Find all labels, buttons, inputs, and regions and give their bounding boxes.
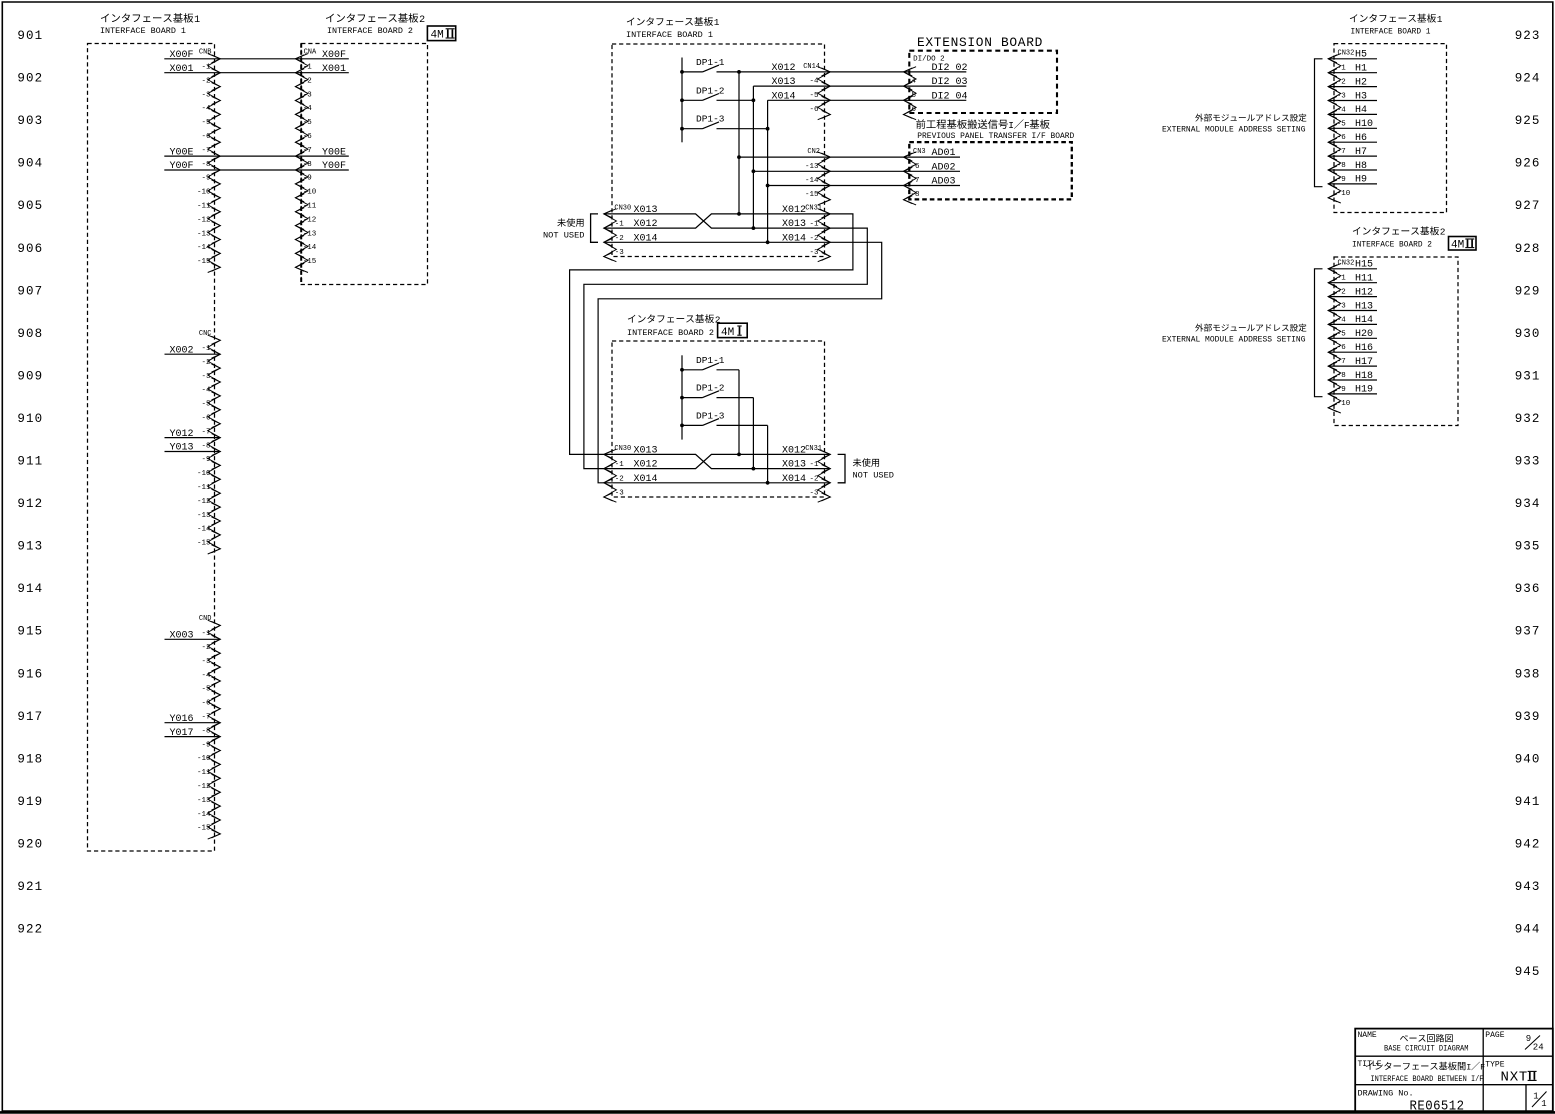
svg-text:-4: -4 [809, 78, 819, 86]
svg-text:1: 1 [1437, 14, 1443, 25]
4MII type box (right board 2) [1449, 237, 1477, 251]
wire AD01 net (to CN2 / CN3) [739, 156, 904, 158]
net vertical DP1-2 to X013 row (board 2) [752, 398, 754, 469]
wire X013 (to CN14-4) [753, 85, 903, 87]
svg-text:NOT USED: NOT USED [543, 230, 585, 240]
svg-text:-4: -4 [1337, 106, 1347, 114]
svg-text:H1: H1 [1355, 64, 1367, 75]
svg-text:Y00E: Y00E [322, 147, 346, 158]
address-setting bracket (board 1 right) [1315, 59, 1323, 187]
svg-text:H16: H16 [1355, 343, 1373, 354]
wire stub DI2 03 [904, 85, 967, 87]
svg-text:CN14: CN14 [803, 63, 820, 71]
svg-text:INTERFACE BOARD 1: INTERFACE BOARD 1 [1351, 27, 1431, 37]
svg-text:-8: -8 [201, 727, 210, 735]
interface board 2 (right) box [1334, 257, 1458, 426]
svg-text:-15: -15 [197, 258, 211, 266]
svg-text:-10: -10 [1337, 400, 1351, 408]
svg-text:-7: -7 [1337, 148, 1346, 156]
svg-text:901: 901 [17, 29, 43, 43]
not used label (board 2) [853, 458, 895, 480]
svg-text:H13: H13 [1355, 301, 1373, 312]
svg-text:H3: H3 [1355, 91, 1367, 102]
svg-text:944: 944 [1515, 923, 1541, 937]
title block NAME cell [1358, 1031, 1469, 1054]
svg-text:NAME: NAME [1358, 1031, 1377, 1040]
svg-text:912: 912 [17, 497, 43, 511]
svg-text:INTERFACE BOARD 1: INTERFACE BOARD 1 [626, 30, 713, 40]
svg-text:CN31: CN31 [805, 445, 822, 453]
svg-text:-13: -13 [805, 163, 819, 171]
svg-text:X013: X013 [771, 77, 795, 88]
wire stub DI2 04 [904, 99, 967, 101]
4MI type box (middle board 2) [718, 323, 748, 337]
svg-text:913: 913 [17, 540, 43, 554]
svg-text:-5: -5 [201, 119, 211, 127]
svg-text:H2: H2 [1355, 77, 1367, 88]
svg-text:X001: X001 [169, 64, 193, 75]
svg-text:NOT USED: NOT USED [853, 471, 895, 481]
wire stub DI2 02 [904, 71, 967, 73]
svg-text:-15: -15 [805, 191, 819, 199]
wire stub H17 [1328, 365, 1377, 367]
svg-text:-9: -9 [303, 175, 312, 183]
svg-text:938: 938 [1515, 667, 1541, 681]
svg-text:EXTERNAL MODULE ADDRESS SETING: EXTERNAL MODULE ADDRESS SETING [1162, 124, 1306, 134]
wire stub H4 [1328, 113, 1377, 115]
wire stub X002 at CNC-1 [165, 353, 221, 355]
svg-text:DP1-3: DP1-3 [696, 410, 725, 421]
svg-text:X014: X014 [771, 91, 795, 102]
left grid line numbers 901-922 [17, 29, 43, 937]
svg-text:I: I [1466, 1063, 1471, 1073]
wire stub H6 [1328, 141, 1377, 143]
svg-text:-9: -9 [201, 741, 210, 749]
wire stub H3 [1328, 100, 1377, 102]
svg-text:CND: CND [199, 615, 212, 623]
svg-text:-2: -2 [615, 475, 624, 483]
svg-text:-8: -8 [911, 191, 920, 199]
svg-text:-5: -5 [809, 92, 819, 100]
crossover wire X013 (CN30-1 to CN31-1) [604, 214, 831, 228]
wire stub H1 [1328, 72, 1377, 74]
svg-text:H4: H4 [1355, 105, 1367, 116]
svg-text:CN32: CN32 [1338, 49, 1355, 57]
extension board title [917, 35, 1043, 50]
title block DRAWING No cell [1358, 1089, 1465, 1114]
svg-text:X013: X013 [782, 219, 806, 230]
interface board 1 (right) box [1334, 44, 1447, 213]
svg-text:-6: -6 [1337, 344, 1347, 352]
DP switch common line (board 1) [681, 58, 683, 143]
svg-text:-12: -12 [197, 498, 211, 506]
svg-text:-14: -14 [197, 811, 211, 819]
svg-text:-9: -9 [1337, 176, 1346, 184]
svg-text:X001: X001 [322, 64, 346, 75]
svg-text:921: 921 [17, 880, 43, 894]
svg-text:CNA: CNA [304, 48, 317, 56]
svg-text:-5: -5 [201, 401, 211, 409]
svg-text:940: 940 [1515, 752, 1541, 766]
svg-text:-7: -7 [1337, 358, 1346, 366]
svg-text:H17: H17 [1355, 357, 1373, 368]
svg-text:-15: -15 [197, 540, 211, 548]
svg-text:922: 922 [17, 923, 43, 937]
svg-text:CNC: CNC [199, 330, 212, 338]
svg-text:-3: -3 [201, 658, 211, 666]
title block table [1355, 1029, 1553, 1113]
external module address setting label (board 2 right) [1162, 324, 1306, 345]
svg-text:TYPE: TYPE [1485, 1061, 1504, 1070]
svg-text:907: 907 [17, 284, 43, 298]
svg-text:4M: 4M [431, 30, 444, 42]
wire stub H8 [1328, 169, 1377, 171]
svg-text:CNB: CNB [199, 48, 212, 56]
switch DP1-1 [680, 57, 739, 74]
svg-text:910: 910 [17, 412, 43, 426]
svg-text:-5: -5 [1337, 120, 1347, 128]
svg-text:PAGE: PAGE [1485, 1031, 1504, 1040]
svg-text:943: 943 [1515, 880, 1541, 894]
svg-text:-7: -7 [201, 714, 210, 722]
interface board 1 (middle) title [626, 17, 720, 40]
svg-text:H15: H15 [1355, 260, 1373, 271]
wire stub H15 [1328, 268, 1377, 270]
wire stub Y016 at CND-7 [165, 722, 221, 724]
wire X014 (to CN14-5) [768, 99, 904, 101]
svg-text:-2: -2 [615, 235, 624, 243]
svg-text:-2: -2 [201, 359, 210, 367]
interface board 1 (left) box [88, 44, 215, 852]
svg-text:DI2 02: DI2 02 [932, 63, 968, 74]
connector CN31 (board 2) [782, 445, 830, 502]
svg-text:-3: -3 [615, 490, 625, 498]
svg-text:-7: -7 [303, 147, 312, 155]
svg-text:X012: X012 [782, 205, 806, 216]
extension board box [909, 51, 1057, 113]
svg-text:920: 920 [17, 837, 43, 851]
wire stub H13 [1328, 310, 1377, 312]
svg-text:935: 935 [1515, 540, 1541, 554]
svg-text:CN31: CN31 [805, 204, 822, 212]
switch DP1-3 [680, 114, 769, 131]
svg-text:H11: H11 [1355, 274, 1373, 285]
svg-text:-1: -1 [201, 345, 211, 353]
wire X014 (board 2) [604, 482, 831, 484]
wire stub Y013 at CNC-8 [165, 451, 221, 453]
wire AD03 net [768, 185, 904, 187]
svg-text:4M: 4M [1451, 240, 1464, 252]
svg-text:H5: H5 [1355, 50, 1367, 61]
svg-text:-9: -9 [1337, 386, 1346, 394]
interface board 1 (left) title [100, 13, 200, 36]
svg-text:-8: -8 [1337, 162, 1346, 170]
svg-text:-5: -5 [1337, 330, 1347, 338]
svg-text:906: 906 [17, 242, 43, 256]
svg-text:-2: -2 [201, 77, 210, 85]
connector CNB [197, 48, 220, 272]
svg-text:Y016: Y016 [169, 714, 193, 725]
net vertical DP1-1 to X012 row (board 2) [738, 370, 740, 455]
svg-text:942: 942 [1515, 837, 1541, 851]
crossover wire X012 (CN30-1 to CN31 first) [604, 214, 831, 228]
svg-text:931: 931 [1515, 369, 1541, 383]
svg-text:-4: -4 [201, 387, 211, 395]
svg-text:DP1-2: DP1-2 [696, 383, 725, 394]
svg-text:936: 936 [1515, 582, 1541, 596]
svg-text:-11: -11 [197, 203, 211, 211]
svg-text:1: 1 [1541, 1099, 1546, 1109]
wire stub AD03 [904, 185, 961, 187]
svg-text:-11: -11 [197, 484, 211, 492]
wire stub H14 [1328, 323, 1377, 325]
connector CN2 [805, 148, 830, 205]
switch DP1-2 [680, 85, 755, 102]
svg-text:-3: -3 [615, 249, 625, 257]
svg-text:Y017: Y017 [169, 728, 193, 739]
svg-text:904: 904 [17, 157, 43, 171]
svg-text:X012: X012 [782, 445, 806, 456]
wire stub Y012 at CNC-7 [165, 437, 221, 439]
right grid line numbers 923-945 [1515, 29, 1541, 979]
svg-text:-11: -11 [197, 769, 211, 777]
svg-text:-12: -12 [303, 216, 317, 224]
svg-text:-6: -6 [201, 700, 211, 708]
svg-text:CN30: CN30 [614, 204, 631, 212]
svg-text:-2: -2 [1337, 79, 1346, 87]
net vertical DP1-3 to X014 row (board 2) [767, 425, 769, 482]
svg-text:X002: X002 [169, 345, 193, 356]
svg-text:Y012: Y012 [169, 429, 193, 440]
wire stub H20 [1328, 337, 1377, 339]
connector CND [197, 615, 220, 839]
svg-text:-3: -3 [1337, 93, 1347, 101]
wire stub H16 [1328, 351, 1377, 353]
wire stub H5 [1328, 58, 1377, 60]
interconnect wire 2 (board1 CN31 X013 to board2 CN30-1) [584, 228, 867, 469]
svg-text:CN2: CN2 [807, 148, 820, 156]
svg-text:903: 903 [17, 114, 43, 128]
svg-text:1: 1 [714, 17, 720, 28]
svg-text:24: 24 [1533, 1043, 1544, 1053]
svg-text:-9: -9 [201, 456, 210, 464]
svg-text:-10: -10 [197, 755, 211, 763]
wire Y00E CNB to CNA [164, 155, 348, 157]
wire X001 CNB to CNA [164, 72, 348, 74]
svg-text:925: 925 [1515, 114, 1541, 128]
crossover wire X013 (board 2) [604, 454, 831, 468]
svg-text:2: 2 [1440, 227, 1446, 238]
svg-text:4: 4 [912, 78, 917, 86]
svg-text:PREVIOUS PANEL TRANSFER I/F BO: PREVIOUS PANEL TRANSFER I/F BOARD [917, 132, 1074, 141]
svg-text:-5: -5 [201, 686, 211, 694]
interface board 1 (middle) box [612, 44, 825, 257]
svg-text:DP1-3: DP1-3 [696, 114, 725, 125]
svg-text:DP1-2: DP1-2 [696, 85, 725, 96]
wire stub H19 [1328, 393, 1377, 395]
interface board 2 (left) title [326, 13, 425, 36]
interconnect wire 3 (board1 CN31 X014 to board2 CN30-2) [598, 242, 882, 482]
svg-text:939: 939 [1515, 710, 1541, 724]
svg-text:929: 929 [1515, 284, 1541, 298]
svg-text:-3: -3 [809, 490, 819, 498]
svg-text:-8: -8 [303, 161, 312, 169]
switch DP1-1 (board 2) [680, 355, 739, 372]
crossover wire X012 (board 2) [604, 454, 831, 468]
svg-text:-6: -6 [201, 133, 211, 141]
svg-text:919: 919 [17, 795, 43, 809]
svg-text:-14: -14 [197, 526, 211, 534]
svg-text:-12: -12 [197, 783, 211, 791]
svg-text:H18: H18 [1355, 371, 1373, 382]
svg-text:-2: -2 [809, 475, 818, 483]
svg-text:-1: -1 [1337, 275, 1347, 283]
4MII type box (left board 2) [427, 26, 455, 41]
DI/DO 2 label [913, 56, 945, 64]
svg-text:NXT: NXT [1501, 1070, 1529, 1086]
svg-text:-1: -1 [201, 64, 211, 72]
interconnect wire 1 (board1 CN31 X012 to board2 CN30) [570, 214, 853, 455]
svg-text:-10: -10 [197, 470, 211, 478]
svg-text:6: 6 [912, 106, 917, 114]
svg-text:-10: -10 [303, 189, 317, 197]
svg-text:918: 918 [17, 752, 43, 766]
switch DP1-2 (board 2) [680, 383, 753, 400]
not-used bracket at CN31 (board 2) [838, 454, 845, 482]
svg-text:-11: -11 [303, 203, 317, 211]
svg-text:905: 905 [17, 199, 43, 213]
wire stub Y017 at CND-8 [165, 736, 221, 738]
svg-text:X013: X013 [782, 460, 806, 471]
connector CNC [197, 330, 220, 554]
title block sheet 1/1 cell [1533, 1091, 1546, 1109]
interface board 2 (middle) box [612, 341, 825, 497]
svg-text:X014: X014 [782, 233, 806, 244]
svg-text:DI2 03: DI2 03 [932, 77, 968, 88]
svg-text:INTERFACE BOARD 2: INTERFACE BOARD 2 [327, 26, 413, 36]
svg-text:RE06512: RE06512 [1410, 1100, 1465, 1114]
svg-text:-1: -1 [809, 461, 819, 469]
svg-text:-8: -8 [201, 442, 210, 450]
svg-text:-4: -4 [1337, 316, 1347, 324]
svg-text:917: 917 [17, 710, 43, 724]
svg-text:CN30: CN30 [614, 445, 631, 453]
external module address setting label (board 1 right) [1162, 114, 1306, 135]
svg-text:924: 924 [1515, 72, 1541, 86]
wire AD02 net [753, 170, 903, 172]
connector CNA [295, 48, 317, 272]
svg-text:-3: -3 [201, 373, 211, 381]
wire stub H9 [1328, 183, 1377, 185]
svg-text:-1: -1 [201, 630, 211, 638]
svg-text:-1: -1 [303, 64, 313, 72]
connector CN14 [803, 63, 830, 120]
connector CN30 (board 2) [604, 445, 658, 502]
svg-text:-15: -15 [303, 258, 317, 266]
svg-text:5: 5 [912, 92, 917, 100]
svg-text:1: 1 [1533, 1091, 1538, 1101]
svg-text:-1: -1 [615, 461, 625, 469]
svg-text:-2: -2 [809, 235, 818, 243]
not used label (board 1) [543, 218, 585, 240]
wire stub H7 [1328, 155, 1377, 157]
svg-text:X00F: X00F [322, 50, 346, 61]
title block PAGE cell [1485, 1031, 1543, 1053]
svg-text:-4: -4 [201, 105, 211, 113]
svg-text:-15: -15 [197, 825, 211, 833]
svg-text:-6: -6 [809, 106, 819, 114]
svg-text:-13: -13 [197, 230, 211, 238]
svg-text:-8: -8 [1337, 372, 1346, 380]
svg-text:-6: -6 [911, 163, 921, 171]
svg-text:-4: -4 [303, 105, 313, 113]
svg-text:H14: H14 [1355, 315, 1373, 326]
svg-text:9: 9 [1526, 1034, 1531, 1044]
connector CN30 (board 1) [604, 204, 658, 261]
svg-text:BASE CIRCUIT DIAGRAM: BASE CIRCUIT DIAGRAM [1384, 1045, 1469, 1054]
svg-text:-13: -13 [197, 797, 211, 805]
svg-text:932: 932 [1515, 412, 1541, 426]
not-used bracket at CN30 (board 1) [591, 214, 598, 242]
svg-text:H8: H8 [1355, 161, 1367, 172]
svg-text:CN32: CN32 [1338, 259, 1355, 267]
svg-text:-2: -2 [201, 644, 210, 652]
svg-text:914: 914 [17, 582, 43, 596]
svg-text:H9: H9 [1355, 175, 1367, 186]
svg-text:930: 930 [1515, 327, 1541, 341]
wire stub X003 at CND-1 [165, 638, 221, 640]
svg-text:909: 909 [17, 369, 43, 383]
svg-text:902: 902 [17, 72, 43, 86]
svg-text:911: 911 [17, 455, 43, 469]
svg-text:915: 915 [17, 625, 43, 639]
svg-text:-14: -14 [197, 244, 211, 252]
svg-text:H20: H20 [1355, 329, 1373, 340]
svg-text:X00F: X00F [169, 50, 193, 61]
svg-text:-14: -14 [303, 244, 317, 252]
svg-text:EXTENSION BOARD: EXTENSION BOARD [917, 35, 1043, 50]
svg-text:937: 937 [1515, 625, 1541, 639]
svg-text:-3: -3 [303, 91, 313, 99]
svg-text:927: 927 [1515, 199, 1541, 213]
svg-text:H12: H12 [1355, 287, 1373, 298]
svg-text:Y013: Y013 [169, 443, 193, 454]
wire X014 (CN30-2 to CN31-2) [604, 241, 831, 243]
svg-text:-9: -9 [201, 175, 210, 183]
connector CN32 (board 2 right) [1328, 259, 1354, 413]
svg-text:-7: -7 [201, 147, 210, 155]
title block TITLE cell [1358, 1060, 1486, 1084]
interface board 1 (right) title [1350, 14, 1443, 37]
svg-text:H10: H10 [1355, 119, 1373, 130]
interface board 2 (middle) title [627, 314, 721, 338]
svg-text:933: 933 [1515, 455, 1541, 469]
svg-text:4M: 4M [721, 327, 734, 339]
previous panel transfer board box [909, 142, 1072, 199]
connector CN32 (board 1 right) [1328, 49, 1354, 203]
svg-text:I: I [1008, 120, 1014, 131]
svg-text:-8: -8 [201, 161, 210, 169]
svg-text:941: 941 [1515, 795, 1541, 809]
svg-text:-10: -10 [197, 189, 211, 197]
svg-text:-10: -10 [1337, 190, 1351, 198]
svg-text:-14: -14 [805, 177, 819, 185]
interface board 2 (left) box [301, 44, 427, 285]
svg-text:934: 934 [1515, 497, 1541, 511]
wire stub AD01 [904, 156, 961, 158]
DP switch common line (board 2) [681, 355, 683, 439]
svg-text:908: 908 [17, 327, 43, 341]
